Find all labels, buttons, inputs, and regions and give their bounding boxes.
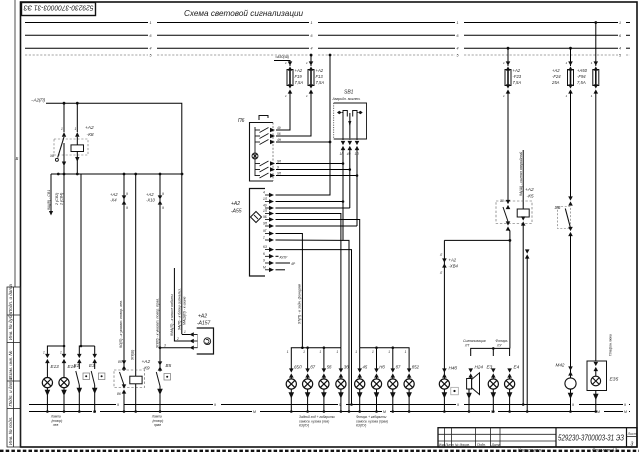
svg-text:7,5А: 7,5А bbox=[295, 80, 304, 85]
fuse F13 column bbox=[276, 54, 324, 136]
lamp H57 column bbox=[388, 350, 401, 411]
svg-text:9А(Ш) - сигнал аварийный: 9А(Ш) - сигнал аварийный bbox=[519, 152, 523, 196]
svg-text:65Л: 65Л bbox=[294, 365, 302, 370]
svg-text:30: 30 bbox=[500, 199, 504, 203]
relay K5 coil bbox=[517, 209, 529, 226]
switch SB1 label bbox=[332, 90, 361, 102]
wire A55 p9 to ground bbox=[276, 250, 352, 405]
svg-text:1: 1 bbox=[75, 127, 77, 131]
bus line 1 bbox=[25, 22, 630, 24]
relay K9 label bbox=[142, 359, 151, 372]
svg-text:КЗ: КЗ bbox=[263, 245, 267, 249]
svg-text:М42: М42 bbox=[556, 363, 565, 368]
fuse F19 column bbox=[274, 55, 303, 130]
wire switch col vertical bbox=[80, 174, 82, 346]
svg-text:-F23: -F23 bbox=[513, 74, 522, 79]
svg-text:б7: б7 bbox=[310, 365, 315, 370]
svg-text:2 (СВ2): 2 (СВ2) bbox=[55, 193, 59, 206]
svg-text:2 (СВ4): 2 (СВ4) bbox=[60, 193, 64, 206]
svg-text:9Л(П) - к указат. повор. лев.: 9Л(П) - к указат. повор. лев. bbox=[119, 300, 123, 348]
wire A157 pin1 feed bbox=[182, 334, 190, 336]
ground bus upper line bbox=[29, 404, 630, 406]
relay K9 coil bbox=[130, 376, 142, 411]
svg-text:б7: б7 bbox=[396, 365, 401, 370]
svg-text:КЛУ: КЛУ bbox=[280, 254, 288, 259]
svg-text:3: 3 bbox=[631, 442, 634, 448]
wire label t6 bbox=[183, 296, 187, 325]
wire switch bracket left bbox=[79, 346, 94, 356]
drawing title bbox=[184, 9, 304, 18]
svg-text:ЛТ: ЛТ bbox=[464, 344, 470, 348]
wire K8 contact drop bbox=[63, 103, 65, 174]
svg-text:2: 2 bbox=[176, 337, 179, 341]
svg-text:Нб: Нб bbox=[379, 365, 385, 370]
svg-text:Б: Б bbox=[16, 156, 19, 161]
svg-text:-К5: -К5 bbox=[527, 194, 534, 200]
svg-text:9: 9 bbox=[162, 192, 164, 196]
switch block P6 label bbox=[238, 118, 245, 124]
svg-text:−А2(П): −А2(П) bbox=[31, 98, 46, 103]
svg-text:М: М bbox=[253, 410, 256, 414]
svg-text:+А2: +А2 bbox=[449, 258, 457, 263]
lamp H56 column bbox=[371, 350, 385, 411]
svg-text:лев: лев bbox=[52, 423, 59, 427]
svg-text:МАШ(П) - к шине: МАШ(П) - к шине bbox=[183, 296, 187, 325]
svg-text:1: 1 bbox=[303, 350, 305, 354]
svg-text:Инв. № дубл.: Инв. № дубл. bbox=[8, 312, 13, 340]
svg-text:1: 1 bbox=[372, 350, 374, 354]
svg-text:9: 9 bbox=[277, 166, 279, 170]
svg-text:Схема световой сигнализации: Схема световой сигнализации bbox=[184, 9, 304, 18]
svg-text:Е1: Е1 bbox=[74, 363, 80, 368]
lamp bracket 1 bbox=[291, 346, 341, 356]
svg-text:КЗ(ПУ): КЗ(ПУ) bbox=[356, 424, 366, 428]
svg-text:1: 1 bbox=[263, 236, 265, 240]
wire H46 column vertical bbox=[443, 240, 445, 378]
ground group label left1 bbox=[50, 415, 62, 428]
svg-text:КЗ(ЛУ): КЗ(ЛУ) bbox=[299, 424, 309, 428]
connector XB4 pins bbox=[439, 253, 458, 275]
svg-text:49: 49 bbox=[277, 126, 281, 130]
ground bus dots bbox=[46, 403, 597, 413]
wire K9 coil vertical bbox=[135, 174, 137, 376]
lamp H58 column bbox=[404, 350, 420, 411]
svg-text:прав: прав bbox=[154, 423, 161, 427]
svg-text:1: 1 bbox=[405, 350, 407, 354]
bus line 3 bbox=[25, 47, 630, 49]
wire A55 p11 stub bbox=[276, 262, 296, 266]
svg-text:б52: б52 bbox=[412, 365, 420, 370]
svg-text:5: 5 bbox=[619, 54, 621, 58]
switch E3 column bbox=[89, 354, 105, 412]
svg-text:+А2: +А2 bbox=[525, 187, 534, 193]
svg-text:1: 1 bbox=[287, 350, 289, 354]
svg-text:9: 9 bbox=[572, 403, 574, 407]
wire SB1a down bbox=[342, 150, 349, 412]
wire label p7 bbox=[298, 283, 302, 324]
svg-text:+А2: +А2 bbox=[295, 68, 303, 73]
svg-text:5б: 5б bbox=[327, 365, 332, 370]
lamp E4 column bbox=[505, 365, 520, 412]
bus labels bbox=[150, 21, 622, 58]
wire K5 contact to junction bbox=[508, 229, 510, 240]
wire SB1c down bbox=[356, 150, 358, 226]
ground bus lower line bbox=[29, 411, 630, 413]
wire A55 p3 bbox=[276, 207, 350, 209]
svg-text:ЅВ1: ЅВ1 bbox=[344, 90, 354, 96]
wire K5 coil feed bbox=[519, 150, 523, 209]
lamp E13 column bbox=[42, 351, 59, 412]
svg-text:Подп. и дата: Подп. и дата bbox=[8, 284, 13, 313]
connector block A55 diamond bbox=[251, 212, 262, 223]
svg-text:4: 4 bbox=[150, 47, 152, 51]
wire label t3 bbox=[155, 298, 159, 348]
relay K5 dashed box bbox=[496, 201, 532, 224]
svg-text:7,5А: 7,5А bbox=[513, 80, 522, 85]
svg-text:9П(П) - к указат. повор. прав.: 9П(П) - к указат. повор. прав. bbox=[155, 298, 159, 348]
title block document number bbox=[558, 434, 624, 443]
switch block P6 box bbox=[250, 116, 274, 182]
svg-text:-К9: -К9 bbox=[143, 366, 150, 372]
svg-text:9: 9 bbox=[126, 192, 128, 196]
svg-text:F13: F13 bbox=[316, 74, 324, 79]
svg-text:9: 9 bbox=[339, 403, 341, 407]
bus line 4 dashed bbox=[25, 54, 630, 56]
wire A55 p12 stub bbox=[276, 269, 286, 271]
ground bus labels bbox=[93, 403, 627, 414]
svg-text:Н24: Н24 bbox=[475, 365, 484, 370]
svg-text:-К8: -К8 bbox=[87, 132, 94, 138]
svg-text:85: 85 bbox=[118, 360, 122, 364]
svg-text:9: 9 bbox=[162, 206, 164, 210]
svg-text:Подп. и дата: Подп. и дата bbox=[8, 377, 13, 406]
bottom perforation bar bbox=[0, 450, 639, 452]
svg-text:6: 6 bbox=[150, 34, 152, 38]
svg-text:1: 1 bbox=[60, 351, 62, 355]
svg-text:Фонарь: Фонарь bbox=[496, 339, 508, 343]
ground group label mid2 bbox=[356, 415, 388, 428]
svg-text:Зб: Зб bbox=[344, 365, 350, 370]
svg-text:9: 9 bbox=[624, 403, 626, 407]
fuse pin tick labels bbox=[285, 61, 593, 98]
svg-text:+А2: +А2 bbox=[85, 125, 94, 131]
svg-text:86: 86 bbox=[117, 392, 121, 396]
switch B5 column bbox=[156, 361, 171, 411]
svg-text:9П: 9П bbox=[277, 172, 282, 176]
svg-text:1: 1 bbox=[457, 21, 459, 25]
svg-text:4: 4 bbox=[457, 47, 459, 51]
relay K8 coil bbox=[71, 127, 84, 162]
svg-text:4: 4 bbox=[619, 47, 621, 51]
svg-text:6: 6 bbox=[311, 34, 313, 38]
wire lamp col E13/E14 vertical bbox=[63, 174, 65, 346]
svg-text:9П(Ш): 9П(Ш) bbox=[131, 350, 135, 360]
wire label t2 bbox=[131, 350, 135, 360]
junction dots y174 bbox=[63, 173, 184, 176]
ground group label mid1 bbox=[299, 415, 335, 428]
svg-text:9: 9 bbox=[457, 403, 459, 407]
switch SB1 box bbox=[334, 103, 367, 139]
svg-text:Инв. № подл.: Инв. № подл. bbox=[8, 416, 13, 445]
connector block A55 bracket bbox=[250, 189, 266, 277]
svg-text:6: 6 bbox=[457, 34, 459, 38]
svg-text:+А50: +А50 bbox=[577, 68, 588, 73]
switch SB1 internals bbox=[337, 111, 363, 141]
svg-text:-А55: -А55 bbox=[231, 209, 242, 215]
svg-text:≈А50(Ш): ≈А50(Ш) bbox=[275, 55, 289, 59]
svg-text:Дата: Дата bbox=[491, 443, 501, 447]
svg-text:ЕЗ: ЕЗ bbox=[487, 365, 493, 370]
svg-text:9Б: 9Б bbox=[263, 215, 267, 219]
wire label t5 bbox=[170, 294, 174, 336]
svg-text:1: 1 bbox=[319, 350, 321, 354]
connector A157 pins bbox=[164, 330, 198, 350]
relay K5 contact bbox=[500, 199, 510, 231]
svg-text:ЛУ: ЛУ bbox=[496, 344, 502, 348]
svg-text:1: 1 bbox=[336, 350, 338, 354]
relay K8 label bbox=[85, 125, 94, 138]
bottom title block bbox=[438, 428, 637, 447]
svg-text:+А2: +А2 bbox=[110, 192, 118, 197]
svg-text:1: 1 bbox=[355, 350, 357, 354]
motor M42 bbox=[556, 363, 577, 412]
svg-text:-А157: -А157 bbox=[197, 321, 211, 327]
svg-text:5: 5 bbox=[457, 54, 459, 58]
svg-text:529230-3700003-31 ЭЗ: 529230-3700003-31 ЭЗ bbox=[23, 4, 94, 13]
svg-text:Е13: Е13 bbox=[51, 364, 60, 369]
svg-text:4Р: 4Р bbox=[291, 262, 296, 266]
svg-text:9Щ(В) - СВ1: 9Щ(В) - СВ1 bbox=[47, 190, 51, 210]
lamp H55 column bbox=[355, 350, 368, 411]
svg-text:№ докум.: № докум. bbox=[455, 443, 470, 447]
wire bus4 riser to A55 p1 bbox=[276, 54, 332, 195]
node -A2(P) feed label bbox=[31, 98, 46, 103]
fuse F23 column bbox=[505, 47, 522, 203]
wire P6 row6 to SB1c bbox=[276, 174, 358, 177]
wire A55 p4 to lamp bracket 1 bbox=[276, 214, 341, 348]
relay K9 contact bbox=[117, 360, 126, 412]
svg-text:4: 4 bbox=[311, 47, 313, 51]
svg-text:+А2: +А2 bbox=[231, 201, 240, 207]
svg-text:Аварийн. выключ.: Аварийн. выключ. bbox=[332, 97, 361, 101]
svg-text:9: 9 bbox=[263, 259, 265, 263]
wire junction line y174 bbox=[51, 173, 182, 175]
svg-text:1П: 1П bbox=[263, 209, 268, 213]
wire left feed horizontal bbox=[46, 103, 182, 334]
wire P6 row4 to SB1a bbox=[276, 162, 344, 165]
svg-text:9Т(П) - к задн. фонарям: 9Т(П) - к задн. фонарям bbox=[298, 283, 302, 324]
connector A157 label bbox=[197, 314, 211, 327]
connector block A55 label bbox=[231, 201, 242, 215]
top-left document number box bbox=[22, 3, 96, 16]
switch block P6 internals bbox=[252, 127, 269, 178]
lamp H51 column bbox=[286, 350, 302, 411]
svg-text:+А2: +А2 bbox=[316, 68, 324, 73]
svg-text:Подп.: Подп. bbox=[477, 443, 486, 447]
svg-text:1: 1 bbox=[150, 21, 152, 25]
connector X4 pins bbox=[110, 192, 128, 210]
svg-text:В5: В5 bbox=[166, 363, 172, 368]
svg-text:-F94: -F94 bbox=[577, 74, 586, 79]
wire K9 contact vertical bbox=[123, 174, 125, 371]
node wire-code list bbox=[47, 173, 63, 216]
wire K5 coil to ground bbox=[522, 224, 524, 405]
connector X10 pins bbox=[146, 192, 164, 210]
switch SB1 pins bbox=[340, 141, 360, 156]
wire label t4 bbox=[177, 288, 181, 330]
svg-text:Е4: Е4 bbox=[514, 365, 520, 370]
junction dots on feed bbox=[63, 102, 79, 105]
lamp H46 bbox=[439, 366, 458, 412]
wire A55 p5 to lamp bracket 2 bbox=[276, 220, 360, 348]
svg-text:+А2: +А2 bbox=[513, 68, 521, 73]
svg-text:45: 45 bbox=[363, 365, 368, 370]
wire P6 row5 to SB1b bbox=[276, 168, 351, 171]
svg-text:Плафон люка: Плафон люка bbox=[609, 334, 613, 356]
svg-text:-ХВ4: -ХВ4 bbox=[449, 264, 459, 269]
fuse F24 column bbox=[551, 47, 574, 199]
svg-text:4Н: 4Н bbox=[277, 138, 282, 142]
frame zone letter bbox=[16, 156, 19, 161]
svg-text:7,5А: 7,5А bbox=[577, 80, 586, 85]
connector block A55 pins bbox=[263, 191, 274, 273]
ground group label left2 bbox=[151, 415, 163, 428]
relay K8 dashed box bbox=[54, 139, 88, 155]
svg-text:9МА(П) - к массе кабины: 9МА(П) - к массе кабины bbox=[170, 294, 174, 336]
wire right bracket bbox=[471, 347, 510, 356]
lamp bracket 2 bbox=[360, 346, 409, 356]
wire right bracket riser bbox=[509, 240, 511, 348]
svg-text:25А: 25А bbox=[551, 80, 560, 85]
relay K9 dashed box bbox=[114, 370, 145, 388]
svg-text:9: 9 bbox=[126, 206, 128, 210]
svg-text:М: М bbox=[263, 265, 266, 269]
svg-text:56: 56 bbox=[277, 132, 281, 136]
bottom margin texts bbox=[518, 448, 618, 452]
svg-text:1: 1 bbox=[43, 351, 45, 355]
svg-text:М: М bbox=[597, 410, 600, 414]
bus line 2 bbox=[25, 34, 630, 36]
svg-text:ЕЗ5: ЕЗ5 bbox=[610, 377, 619, 383]
wire B5 vertical bbox=[159, 174, 161, 371]
svg-text:Е3: Е3 bbox=[89, 363, 95, 368]
svg-text:9А(П) - к блоку сигнализ.: 9А(П) - к блоку сигнализ. bbox=[177, 288, 181, 330]
svg-text:+А2: +А2 bbox=[146, 192, 154, 197]
svg-text:Сигнализация: Сигнализация bbox=[463, 339, 486, 343]
svg-text:F19: F19 bbox=[295, 74, 303, 79]
svg-text:П6: П6 bbox=[238, 118, 245, 124]
svg-text:ХВ: ХВ bbox=[49, 154, 55, 158]
svg-text:1: 1 bbox=[61, 127, 63, 131]
wire SB1b down bbox=[349, 150, 351, 208]
fuse F94 column bbox=[577, 21, 599, 361]
bracket dots bbox=[63, 345, 83, 348]
svg-text:М: М bbox=[624, 410, 627, 414]
svg-text:1: 1 bbox=[619, 21, 621, 25]
svg-text:1: 1 bbox=[388, 350, 390, 354]
wire A157 pin3 feed bbox=[159, 346, 190, 349]
svg-text:1: 1 bbox=[184, 330, 186, 334]
svg-text:9: 9 bbox=[117, 403, 119, 407]
svg-text:6: 6 bbox=[619, 34, 621, 38]
lamp box E35 label text bbox=[609, 334, 613, 356]
wire A55 p2 bbox=[276, 201, 344, 203]
svg-text:5: 5 bbox=[150, 54, 152, 58]
lamp H52 column bbox=[303, 350, 316, 411]
left stamp column bbox=[7, 287, 21, 447]
svg-text:М: М bbox=[383, 410, 386, 414]
svg-text:+А2: +А2 bbox=[142, 359, 151, 365]
svg-text:+А2: +А2 bbox=[552, 68, 560, 73]
svg-text:1: 1 bbox=[311, 21, 313, 25]
svg-text:Взам. инв. №: Взам. инв. № bbox=[8, 351, 13, 379]
lamp E3r column bbox=[487, 365, 499, 412]
wire P6 row3 bbox=[276, 141, 330, 143]
svg-text:-Х4: -Х4 bbox=[110, 198, 117, 203]
svg-text:3: 3 bbox=[164, 344, 166, 348]
svg-text:529230-3700003-31 ЭЗ: 529230-3700003-31 ЭЗ bbox=[558, 434, 624, 443]
svg-text:-Х10: -Х10 bbox=[146, 198, 156, 203]
wire lamp bracket left bbox=[47, 346, 64, 356]
wire junction y240 bbox=[444, 239, 511, 242]
svg-text:9: 9 bbox=[214, 403, 216, 407]
lamp E14 column bbox=[59, 351, 76, 412]
lamp H54 column bbox=[336, 350, 349, 411]
wire A55 p8 stub bbox=[276, 239, 344, 241]
svg-text:Лист: Лист bbox=[627, 432, 637, 436]
relay K5 label bbox=[525, 187, 534, 200]
bracket group labels bbox=[463, 339, 508, 348]
wire A55 p6 bbox=[276, 225, 358, 227]
svg-text:49: 49 bbox=[263, 204, 267, 208]
wire A55 p10 stub bbox=[276, 254, 288, 259]
speaker H24 column bbox=[466, 365, 483, 412]
lamp H53 column bbox=[319, 350, 332, 411]
svg-text:-F24: -F24 bbox=[552, 74, 561, 79]
svg-text:+А2: +А2 bbox=[198, 314, 207, 320]
wire A55 p7 to lamp bracket 1 left bbox=[276, 234, 304, 350]
lamp box E35 bbox=[587, 361, 619, 412]
svg-text:9П: 9П bbox=[263, 222, 268, 226]
switch E1 column bbox=[74, 354, 90, 412]
wire A157 pin2 feed bbox=[174, 268, 190, 341]
wire second right vertical bbox=[525, 249, 530, 411]
svg-text:Лист: Лист bbox=[444, 443, 454, 447]
switch block P6 pins bbox=[270, 126, 282, 178]
wire label t1 bbox=[119, 300, 123, 348]
svg-text:Н4б: Н4б bbox=[449, 366, 458, 371]
svg-text:4: 4 bbox=[263, 191, 265, 195]
relay K8 contact bbox=[49, 127, 66, 166]
switch S6 bbox=[555, 196, 573, 378]
wire K8 coil drop bbox=[76, 103, 78, 174]
connector A157 box bbox=[197, 328, 214, 354]
svg-text:7,5А: 7,5А bbox=[316, 80, 325, 85]
